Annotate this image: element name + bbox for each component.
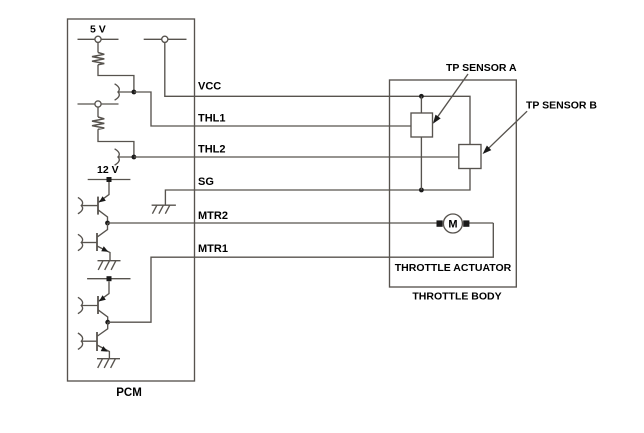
wire T1 to R1 — [97, 42, 99, 52]
wire SG dot to sensor A bottom — [420, 137, 422, 190]
resistor R1 — [92, 53, 104, 65]
wire T2 to R2 — [97, 107, 99, 117]
terminal 5V T1 — [78, 36, 119, 42]
transistor Q4 collector lead — [98, 322, 108, 336]
wire VCC dot to sensor A top — [420, 96, 422, 113]
wire MTR1 — [108, 223, 494, 322]
terminal 5V T2 — [78, 101, 119, 107]
svg-text:M: M — [448, 218, 457, 230]
wire motor to MTR1 corner — [466, 222, 493, 224]
transistor Q4 base bar — [96, 332, 98, 351]
junction dot THL1 — [132, 90, 137, 95]
wire curve to THL2 node — [118, 156, 134, 158]
connector curve (internal) at THL1 — [115, 84, 120, 100]
junction dot SG — [419, 188, 424, 193]
wire R2 to THL2 node — [98, 129, 134, 157]
transistor Q1 emitter lead — [98, 210, 108, 223]
svg-text:TP SENSOR A: TP SENSOR A — [446, 62, 517, 74]
svg-text:SG: SG — [198, 176, 214, 188]
svg-text:5 V: 5 V — [90, 24, 106, 36]
wire curve to THL1 node — [118, 91, 134, 93]
wire VCC — [165, 42, 470, 144]
TP sensor A box — [411, 113, 433, 137]
resistor R2 — [92, 117, 104, 129]
wire R1 to THL1 node — [98, 65, 134, 92]
transistor Q3 collector lead — [99, 281, 109, 301]
svg-text:THL1: THL1 — [198, 112, 226, 124]
transistor Q1 base lead — [82, 205, 99, 207]
terminal VCC T3 — [144, 36, 187, 42]
connector curve Q4 base — [78, 333, 83, 349]
junction dot THL2 — [132, 155, 137, 160]
transistor Q4 arrow — [101, 346, 108, 352]
svg-text:12 V: 12 V — [97, 164, 119, 176]
transistor Q3 arrow — [99, 295, 106, 301]
wire THL1 — [134, 92, 411, 126]
transistor Q2 base lead — [82, 242, 98, 244]
TP sensor B box — [459, 145, 481, 169]
transistor Q1 collector lead — [99, 182, 109, 202]
svg-text:THL2: THL2 — [198, 144, 226, 156]
svg-text:TP SENSOR B: TP SENSOR B — [526, 100, 597, 112]
ground Q2 — [98, 261, 121, 270]
transistor Q1 arrow — [99, 196, 106, 202]
junction dot MTR2 — [105, 221, 110, 226]
svg-text:THROTTLE ACTUATOR: THROTTLE ACTUATOR — [395, 262, 512, 274]
connector curve Q2 base — [78, 234, 83, 250]
transistor Q3 emitter lead — [98, 310, 108, 322]
connector curve Q1 base — [78, 197, 83, 213]
ground SG — [152, 205, 176, 214]
motor M — [437, 214, 470, 233]
throttle body box — [390, 80, 517, 287]
wire MTR2 — [108, 222, 438, 224]
12V rail 2 — [87, 276, 130, 281]
12V rail 1 — [88, 177, 131, 182]
TP sensor A pointer arrow — [433, 74, 468, 124]
svg-text:PCM: PCM — [116, 387, 142, 399]
connector curve (internal) at THL2 — [115, 149, 120, 165]
transistor Q2 base bar — [96, 233, 98, 251]
transistor Q2 emitter lead — [97, 246, 110, 261]
ground Q4 — [97, 359, 120, 368]
transistor Q4 base lead — [82, 340, 98, 342]
wire THL2 — [134, 156, 459, 158]
svg-text:VCC: VCC — [198, 81, 221, 93]
svg-text:MTR2: MTR2 — [198, 210, 228, 222]
transistor Q2 collector lead — [98, 223, 108, 237]
transistor Q3 base bar — [97, 296, 99, 314]
svg-text:MTR1: MTR1 — [198, 243, 228, 255]
connector curve Q3 base — [78, 297, 83, 313]
transistor Q1 base bar — [97, 197, 99, 215]
junction dot MTR1 — [105, 320, 110, 325]
wire SG — [165, 168, 470, 205]
transistor Q3 base lead — [82, 305, 99, 307]
transistor Q2 arrow — [101, 246, 108, 251]
PCM box — [68, 19, 195, 381]
svg-text:THROTTLE BODY: THROTTLE BODY — [412, 291, 501, 303]
TP sensor B pointer arrow — [483, 111, 527, 154]
junction dot VCC — [419, 94, 424, 99]
transistor Q4 emitter lead — [97, 345, 109, 359]
